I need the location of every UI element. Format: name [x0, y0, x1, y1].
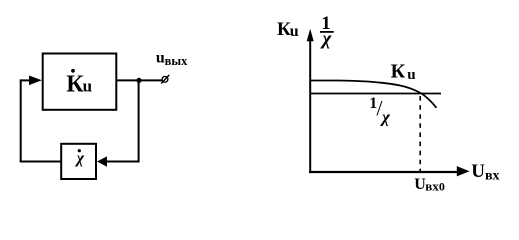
svg-text:U: U	[471, 161, 485, 182]
svg-text:u: u	[407, 67, 415, 83]
input arrowhead	[29, 76, 42, 86]
output wire	[116, 79, 162, 81]
amplifier block K_u	[43, 54, 117, 110]
svg-text:вх: вх	[485, 168, 500, 183]
label K_u dot	[71, 69, 75, 73]
horizontal axis arrowhead	[457, 166, 470, 176]
svg-text:χ: χ	[75, 150, 85, 167]
svg-text:вых: вых	[165, 54, 189, 68]
K_u curve	[310, 81, 437, 108]
1/chi horizontal line	[310, 93, 441, 95]
dashed line at U_vx0	[419, 96, 421, 171]
feedback block chi	[61, 144, 96, 179]
output terminal slash	[161, 75, 169, 84]
svg-text:К: К	[66, 72, 84, 98]
label chi dot	[78, 149, 81, 152]
svg-text:u: u	[83, 77, 92, 96]
svg-text:u: u	[156, 50, 165, 67]
fraction bar	[320, 31, 334, 33]
feedback bottom wire	[20, 161, 61, 163]
svg-text:u: u	[290, 23, 299, 40]
feedback right wire	[106, 80, 139, 162]
graph horizontal axis	[309, 171, 458, 173]
svg-text:вх: вх	[425, 179, 439, 194]
arrowhead into chi box	[97, 156, 107, 166]
output terminal circle	[162, 76, 168, 82]
graph vertical axis	[309, 39, 311, 173]
svg-text:χ: χ	[380, 108, 391, 127]
svg-text:К: К	[391, 60, 406, 82]
vertical axis arrowhead	[307, 29, 314, 41]
junction dot	[136, 78, 141, 83]
feedback left vertical wire	[20, 79, 22, 161]
input wire	[21, 79, 31, 81]
svg-text:0: 0	[439, 180, 445, 194]
